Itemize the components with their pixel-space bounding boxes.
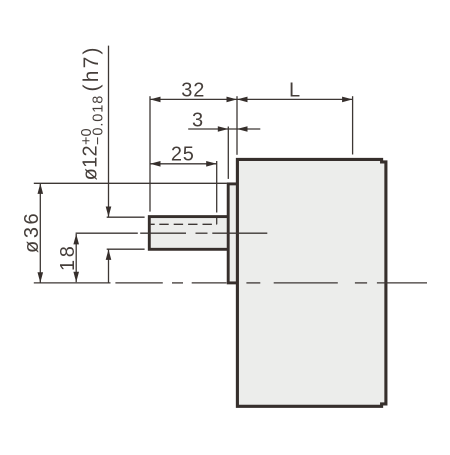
- extension line phi36 top: [34, 182, 227, 184]
- extension line L right: [352, 96, 354, 154]
- dimension line phi12 lower: [108, 249, 110, 283]
- dimension line 18: [75, 234, 77, 282]
- dimension line phi12 upper: [108, 46, 110, 217]
- svg-text:18: 18: [57, 244, 79, 271]
- dimension line 32 and L: [150, 98, 353, 100]
- arrow 18 up: [73, 234, 79, 245]
- arrow L left: [237, 97, 248, 103]
- svg-text:L: L: [289, 79, 300, 101]
- pilot flange boss: [228, 184, 238, 283]
- arrow 3 right (outside): [237, 126, 248, 132]
- shaft centerline: [76, 232, 268, 234]
- arrow 18 down: [73, 272, 79, 283]
- arrow 25 right: [206, 161, 217, 167]
- svg-text:3: 3: [192, 109, 203, 131]
- arrow 25 left: [150, 161, 161, 167]
- dimension line phi36: [39, 183, 41, 282]
- svg-text:25: 25: [171, 143, 195, 165]
- svg-text:ø36: ø36: [21, 211, 43, 253]
- arrow 32 right: [227, 97, 238, 103]
- dimension line 3: [188, 128, 260, 130]
- extension line body front face (32 right / L left / 3 right): [236, 96, 238, 155]
- arrow 3 left (outside): [218, 126, 229, 132]
- extension line 25 right: [216, 161, 218, 213]
- dimension line 25: [150, 163, 217, 165]
- svg-text:(h7): (h7): [80, 45, 103, 91]
- shaft flat end tick: [216, 218, 218, 224]
- body centerline: [34, 282, 427, 284]
- shaft flat hidden line: [151, 223, 217, 225]
- arrow 32 left: [150, 97, 161, 103]
- arrow L right: [342, 97, 353, 103]
- svg-text:ø12: ø12: [80, 145, 102, 180]
- svg-text:32: 32: [181, 80, 205, 102]
- gearhead body: [237, 159, 386, 406]
- arrow phi12 down (to shaft top): [106, 207, 112, 218]
- arrow phi12 up (to shaft bottom): [106, 249, 112, 260]
- svg-text:−0.018: −0.018: [90, 95, 106, 145]
- shaft (output shaft, side view): [149, 217, 229, 250]
- extension line phi12 top: [107, 216, 145, 218]
- extension line flange face (3 left): [227, 127, 229, 179]
- extension line shaft tip (32/25 left): [149, 96, 151, 211]
- arrow phi36 down: [38, 272, 44, 283]
- arrow phi36 up: [38, 183, 44, 194]
- extension line phi12 bottom: [107, 248, 145, 250]
